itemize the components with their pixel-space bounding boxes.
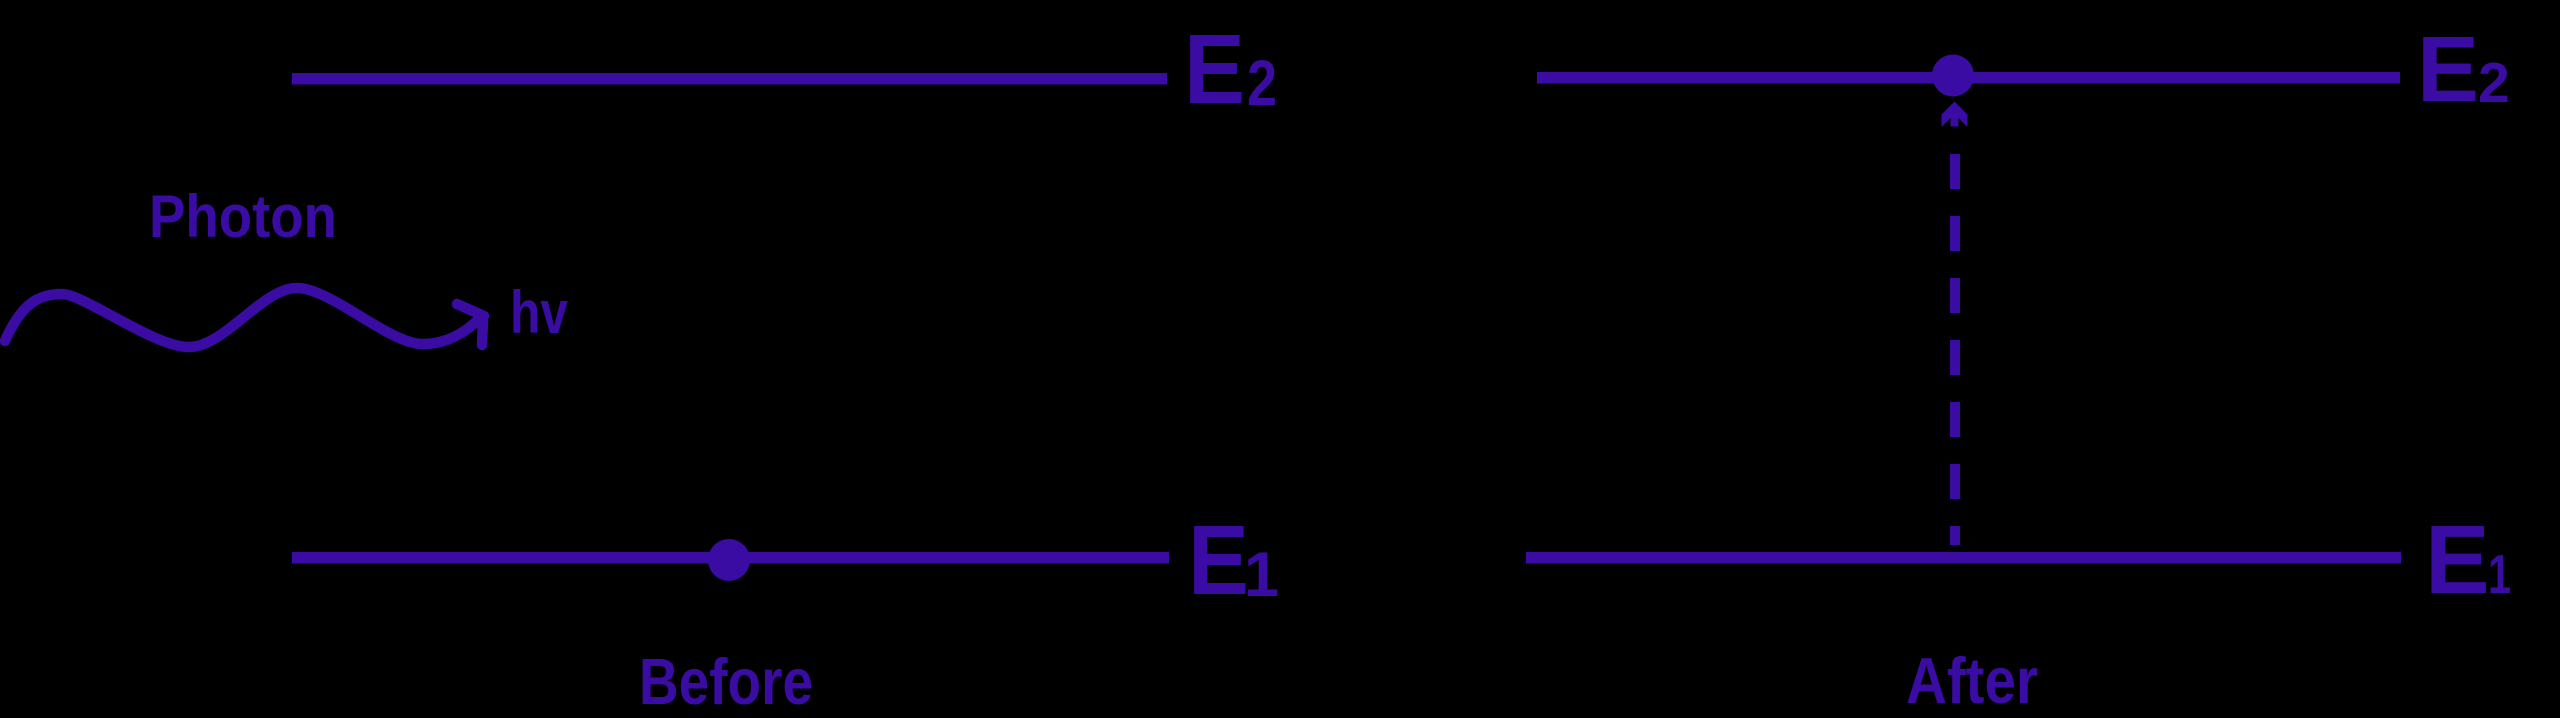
energy level E2 (before) xyxy=(292,73,1167,85)
photon wavy arrow xyxy=(5,288,484,347)
electron dot on E1 (before) xyxy=(708,539,750,581)
energy level E1 (after) xyxy=(1526,552,2401,564)
electron dot on E2 (after) xyxy=(1932,55,1974,97)
label E2 (after) xyxy=(2417,17,2510,121)
transition arrowhead (pointing up at E2) xyxy=(1942,102,1968,128)
svg-text:Before: Before xyxy=(639,645,813,718)
svg-text:hv: hv xyxy=(510,279,569,346)
svg-text:2: 2 xyxy=(2478,51,2510,115)
svg-text:Photon: Photon xyxy=(149,183,337,250)
svg-text:E: E xyxy=(2425,505,2490,614)
svg-text:1: 1 xyxy=(2488,543,2511,605)
label E1 (after) xyxy=(2425,505,2511,614)
svg-text:E: E xyxy=(2417,17,2479,121)
svg-text:2: 2 xyxy=(1247,47,1277,119)
energy level E1 (before) xyxy=(292,552,1169,564)
label E2 (before) xyxy=(1184,14,1277,124)
svg-text:E: E xyxy=(1184,14,1245,124)
transition dashed line (E1 to E2) xyxy=(1950,154,1960,545)
svg-text:1: 1 xyxy=(1244,540,1279,610)
svg-text:E: E xyxy=(1188,505,1249,615)
label E1 (before) xyxy=(1188,505,1279,615)
svg-text:After: After xyxy=(1906,644,2038,717)
energy level E2 (after) xyxy=(1537,72,2400,84)
